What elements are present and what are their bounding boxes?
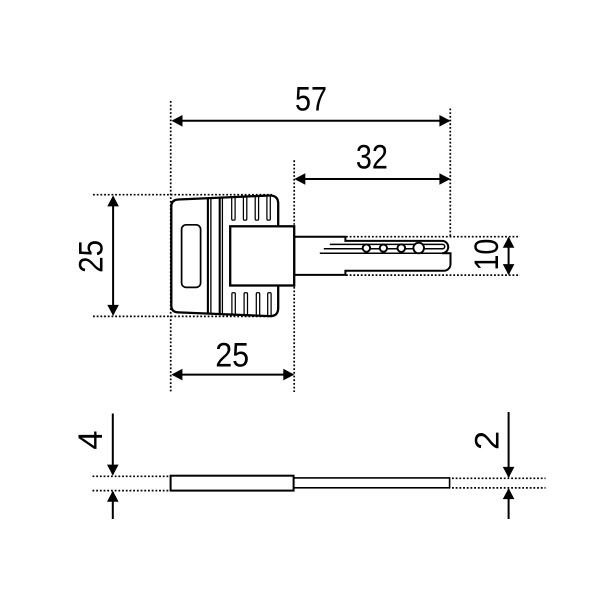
blade milling groove lower xyxy=(320,252,451,254)
svg-text:32: 32 xyxy=(356,139,388,177)
dimension 57 line xyxy=(173,120,449,122)
side extension blade top xyxy=(452,477,546,479)
dimple circle 3 xyxy=(398,244,406,252)
svg-text:10: 10 xyxy=(468,239,506,271)
dimension 25 horizontal left arrow xyxy=(171,369,182,381)
dimension 25 horizontal line xyxy=(173,374,293,376)
dimension 25 vertical bottom arrow xyxy=(107,305,119,316)
dimension 2 lower arrow xyxy=(503,488,515,499)
svg-text:57: 57 xyxy=(295,81,327,119)
dimension 25 vertical top arrow xyxy=(107,195,119,206)
keyring hole xyxy=(182,225,201,288)
top rib slot 4 xyxy=(267,195,270,220)
top rib slot 1 xyxy=(232,196,235,220)
dimension 4 lower arrow xyxy=(107,491,119,502)
dimension 4 lower line xyxy=(112,492,114,519)
side extension blade bottom xyxy=(452,487,546,489)
extension line blade bottom xyxy=(346,274,520,276)
extension line at blade tip xyxy=(449,109,451,237)
extension line left of bow xyxy=(170,101,172,393)
dimple circle 4 xyxy=(413,243,424,254)
svg-text:4: 4 xyxy=(72,431,110,450)
extension line blade top xyxy=(346,236,520,238)
svg-text:2: 2 xyxy=(469,431,507,450)
extension line at collar right lower xyxy=(293,287,295,392)
extension line at collar right upper xyxy=(293,160,295,225)
bow collar block xyxy=(230,226,294,285)
dimension 4 upper arrow xyxy=(107,465,119,476)
bow groove line 1 xyxy=(207,198,209,313)
dimension 57 left arrow xyxy=(172,115,183,127)
dimension 32 line xyxy=(296,178,449,180)
bow groove line 2 xyxy=(210,198,212,314)
dimension 10 bottom arrow xyxy=(503,264,515,275)
dimple circle 2 xyxy=(380,245,387,252)
svg-text:25: 25 xyxy=(215,337,249,375)
blade milling groove upper pair with rounded inner cap xyxy=(324,244,445,248)
bottom rib slot 1 xyxy=(232,293,235,316)
dimension 32 left arrow xyxy=(294,173,305,185)
dimension 32 right arrow xyxy=(439,173,450,185)
dimension 10 top arrow xyxy=(503,237,515,248)
dimension 2 upper arrow xyxy=(503,467,515,478)
blade outline with stepped shank and rounded tip xyxy=(294,237,450,275)
bow groove line 3 xyxy=(219,198,221,314)
top rib slot 2 xyxy=(243,196,246,220)
side view thin blade bar xyxy=(294,478,450,488)
side extension bow bottom xyxy=(93,490,170,492)
extension line bow bottom xyxy=(93,315,272,317)
dimple circle 1 xyxy=(363,244,370,251)
key head (bow) outline xyxy=(171,195,278,316)
dimension 25 horizontal right arrow xyxy=(283,369,294,381)
side extension bow top xyxy=(93,475,170,477)
dimension 4 upper line xyxy=(112,414,114,475)
bottom rib slot 2 xyxy=(244,293,247,316)
svg-text:25: 25 xyxy=(73,240,111,273)
dimension 2 upper line xyxy=(508,412,510,477)
side view thick bow bar xyxy=(171,476,294,491)
dimension 2 lower line xyxy=(508,489,510,519)
bottom rib slot 3 xyxy=(256,293,259,317)
bottom rib slot 4 xyxy=(268,293,271,317)
dimension 10 line xyxy=(508,238,510,274)
bow groove line 4 xyxy=(221,198,223,315)
extension line bow top xyxy=(93,194,272,196)
dimension 57 right arrow xyxy=(439,115,450,127)
dimension 25 vertical line xyxy=(112,197,114,315)
top rib slot 3 xyxy=(255,195,258,220)
